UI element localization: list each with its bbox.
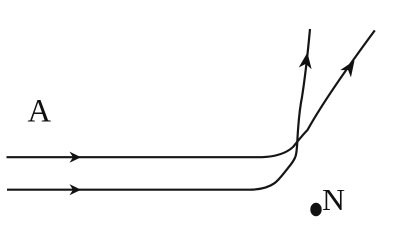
svg-text:A: A [28,94,52,130]
nucleus dot [310,203,321,217]
arrowhead on upper incident ray [70,152,82,163]
arrowhead on lower incident ray [70,184,82,195]
arrowhead on near-vertical outgoing ray [299,52,314,70]
ray 1 trajectory (upper incident ray, deflected ~55deg) [7,30,375,157]
ray 2 trajectory (lower incident ray, deflected ~85deg) [7,29,310,190]
arrowhead on diagonal outgoing ray [340,57,360,78]
svg-text:N: N [322,183,345,217]
